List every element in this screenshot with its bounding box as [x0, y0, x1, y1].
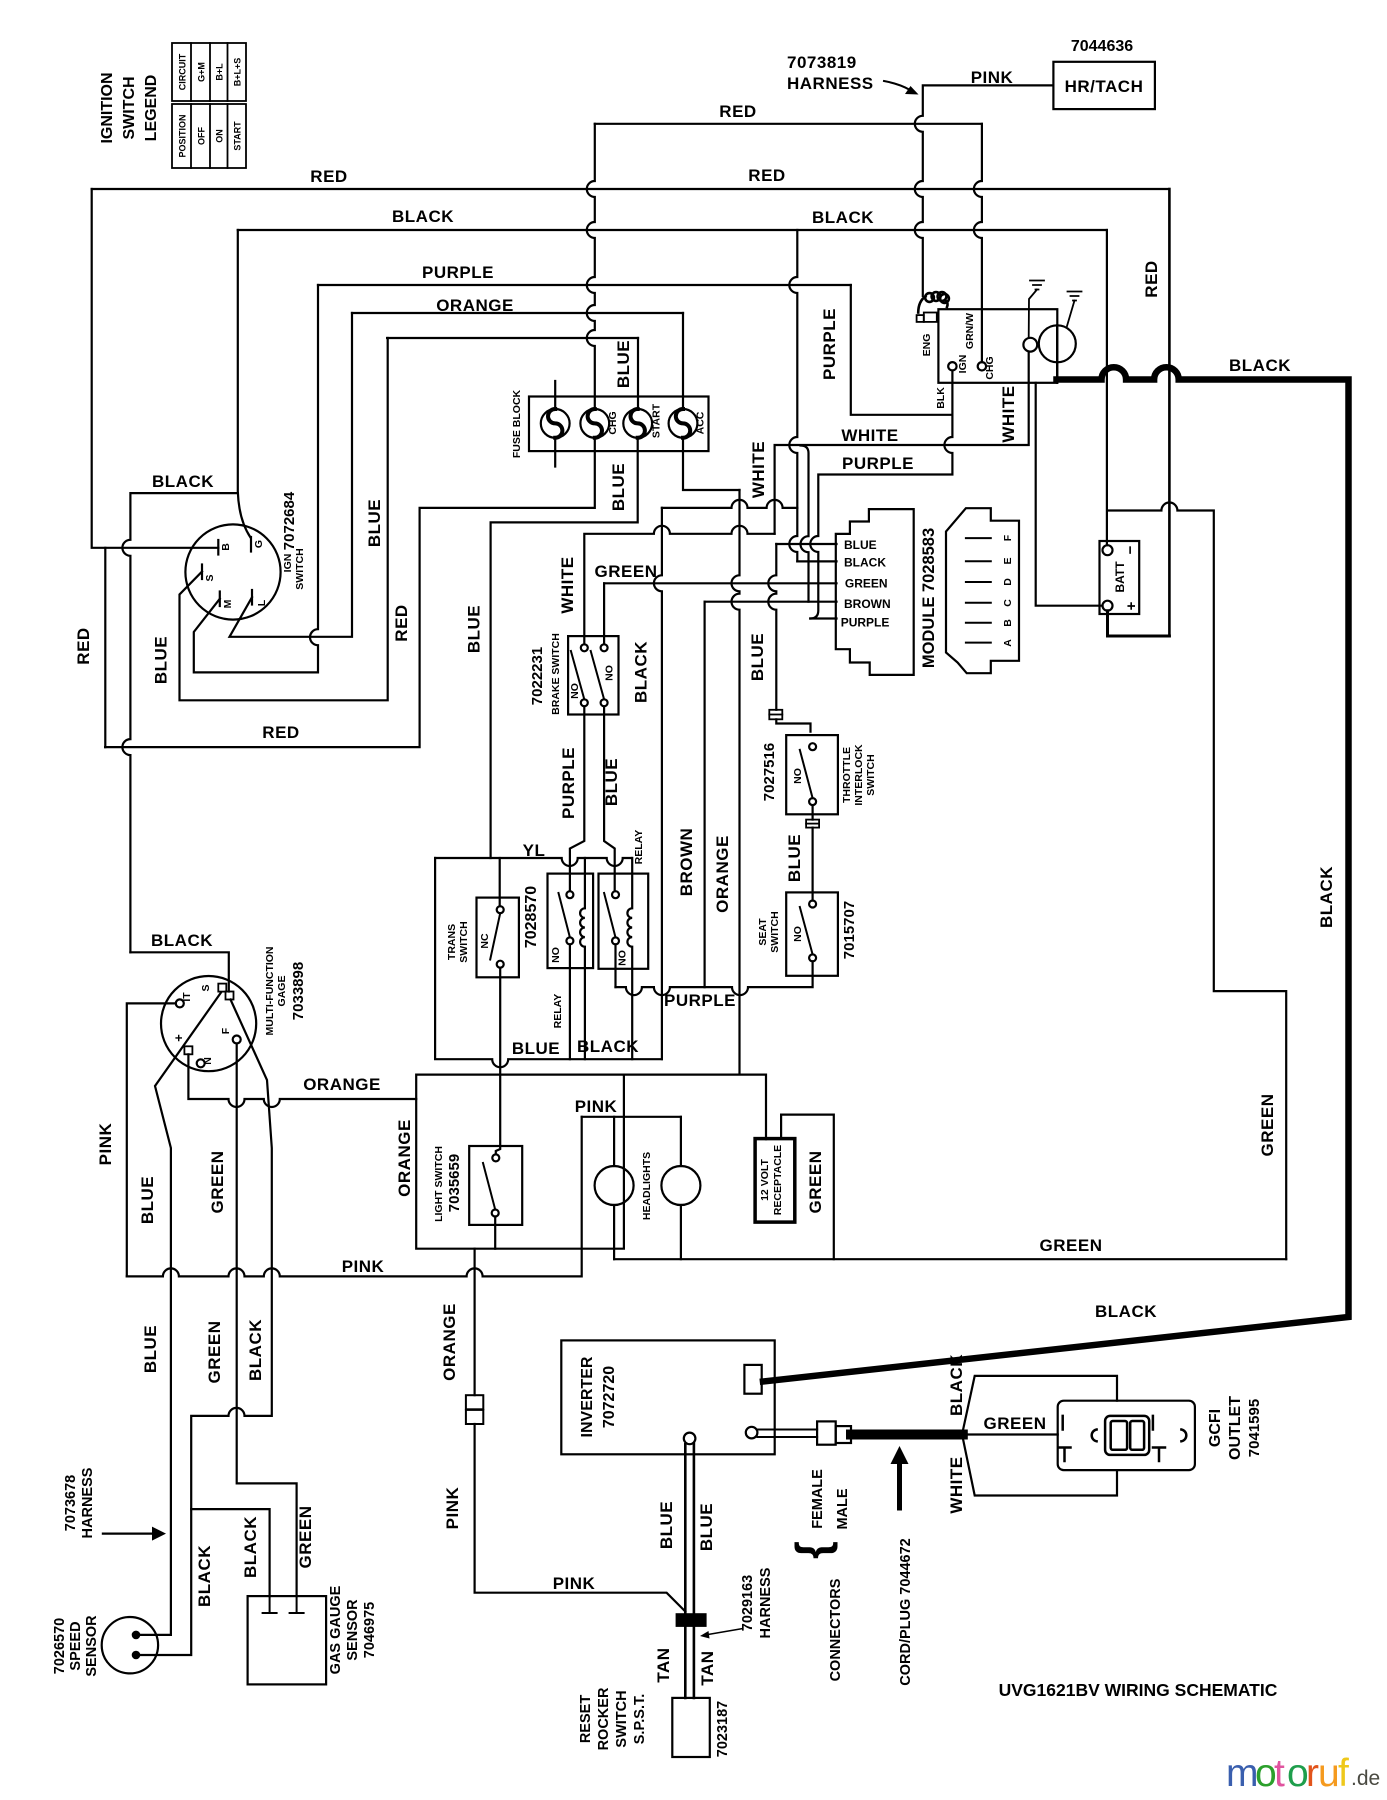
wire BLUE throttle to seat: [811, 805, 813, 820]
wire RED branch down: [104, 548, 106, 747]
svg-text:PURPLE: PURPLE: [422, 263, 494, 282]
svg-text:BLUE: BLUE: [602, 758, 621, 806]
svg-text:PINK: PINK: [443, 1486, 462, 1529]
relay 2 box: [599, 874, 649, 969]
svg-text:INVERTER: INVERTER: [579, 1356, 596, 1437]
wire BLUE from S: [180, 338, 388, 700]
inverter 7072720 box: [561, 1340, 774, 1454]
harness arrow: [103, 1532, 152, 1534]
relay 1 contact bottom: [569, 944, 571, 1059]
wire battery plus loop to red: [1108, 611, 1170, 636]
wire module BLUE row: [776, 543, 836, 545]
svg-text:RED: RED: [310, 167, 347, 186]
engine connector box: [938, 309, 1057, 383]
wire module black up branch: [789, 230, 797, 561]
wire starter to battery plus: [1036, 383, 1103, 606]
wire RED row1 down to CHG: [974, 124, 982, 362]
wire BROWN long vertical: [703, 602, 705, 987]
svg-text:GRN/W: GRN/W: [964, 313, 976, 349]
svg-text:NO: NO: [617, 950, 629, 966]
svg-text:7072720: 7072720: [601, 1366, 618, 1428]
wire PINK headlight row: [582, 1116, 681, 1118]
svg-text:E: E: [1002, 557, 1014, 564]
svg-text:PURPLE: PURPLE: [559, 747, 578, 819]
svg-text:RELAY: RELAY: [552, 994, 564, 1029]
svg-text:7072684: 7072684: [281, 491, 298, 550]
wire PURPLE brake to relay1: [570, 706, 584, 891]
headlight left: [595, 1166, 634, 1205]
svg-text:BLACK: BLACK: [392, 207, 454, 226]
svg-text:+: +: [1123, 601, 1140, 610]
svg-text:IGN: IGN: [282, 554, 294, 573]
svg-text:CHG: CHG: [607, 411, 619, 434]
svg-text:PURPLE: PURPLE: [841, 615, 890, 629]
svg-text:7026570: 7026570: [52, 1618, 68, 1674]
wire module PURPLE row: [810, 617, 836, 619]
wire WHITE fuse4 acc: [683, 438, 740, 490]
svg-text:TRANS: TRANS: [446, 924, 458, 960]
gauge terminal IT: [176, 999, 184, 1007]
relay 1 box: [548, 874, 594, 969]
multi-function gauge 7033898: [161, 976, 256, 1071]
svg-text:NO: NO: [550, 947, 562, 963]
wire RED row2: [92, 188, 1170, 190]
svg-text:7027516: 7027516: [761, 743, 778, 801]
svg-text:FUSE BLOCK: FUSE BLOCK: [511, 389, 523, 458]
wire BLACK to battery neg: [1106, 230, 1108, 545]
svg-text:CONNECTORS: CONNECTORS: [828, 1578, 844, 1681]
svg-text:F: F: [1002, 534, 1014, 541]
wire BLUE pair: [685, 1444, 694, 1615]
svg-text:CORD/PLUG 7044672: CORD/PLUG 7044672: [898, 1538, 914, 1685]
inverter dc terminal: [684, 1433, 696, 1445]
starter motor circle: [1039, 325, 1076, 362]
svg-text:u: u: [1318, 1752, 1340, 1795]
wire BLUE fuse3 to relays: [491, 438, 638, 858]
wire RED down to fuse F2 with hops: [587, 124, 595, 409]
wire ORANGE light loop: [416, 1075, 624, 1249]
svg-text:GREEN: GREEN: [1258, 1094, 1277, 1157]
svg-text:+: +: [171, 1034, 186, 1042]
svg-text:f: f: [1338, 1752, 1349, 1795]
gauge terminal S: [218, 984, 226, 992]
12 volt receptacle: [755, 1139, 795, 1223]
wire 12V to GREEN: [781, 1115, 834, 1260]
gauge terminal F: [233, 1036, 241, 1044]
module pin connector: [946, 508, 1019, 673]
wire trans bottom to light switch: [496, 968, 500, 1155]
wire PINK to hr/tach: [915, 85, 1054, 296]
wire PINK row bottom: [127, 1117, 582, 1277]
terminal L tick: [251, 590, 253, 605]
svg-text:IGNITION: IGNITION: [99, 72, 116, 143]
svg-text:SWITCH: SWITCH: [121, 76, 138, 139]
svg-text:7073819: 7073819: [787, 53, 857, 72]
svg-text:ORANGE: ORANGE: [713, 835, 732, 913]
wire ORANGE to L: [230, 313, 353, 637]
svg-text:BLACK: BLACK: [246, 1319, 265, 1381]
svg-text:SWITCH: SWITCH: [458, 921, 470, 962]
ground engine 2: [1067, 292, 1082, 327]
svg-text:TAN: TAN: [654, 1647, 673, 1682]
throttle interlock switch 7027516: [786, 735, 838, 814]
svg-text:OFF: OFF: [197, 127, 207, 145]
svg-text:7046975: 7046975: [362, 1602, 378, 1658]
svg-text:BLACK: BLACK: [577, 1037, 639, 1056]
svg-text:CIRCUIT: CIRCUIT: [178, 53, 188, 90]
headlight right: [661, 1166, 700, 1205]
svg-text:START: START: [651, 403, 663, 438]
svg-text:C: C: [1002, 599, 1014, 607]
svg-text:GREEN: GREEN: [595, 562, 658, 581]
svg-text:PINK: PINK: [96, 1122, 115, 1165]
wire module BROWN row: [705, 601, 837, 603]
module pins: [966, 538, 991, 643]
wire ORANGE row: [352, 312, 683, 314]
connector bar: [677, 1614, 706, 1626]
wire PINK chain: [475, 1424, 686, 1612]
wire PURPLE row: [318, 284, 851, 286]
svg-text:D: D: [1002, 578, 1014, 586]
svg-text:LEGEND: LEGEND: [143, 75, 160, 142]
svg-text:BLUE: BLUE: [614, 340, 633, 388]
svg-text:NO: NO: [792, 768, 804, 784]
svg-text:SEAT: SEAT: [757, 918, 769, 946]
motoruf watermark: [1226, 1752, 1380, 1795]
svg-text:BLACK: BLACK: [947, 1354, 966, 1416]
svg-text:MULTI-FUNCTION: MULTI-FUNCTION: [264, 946, 276, 1035]
wire PURPLE seat row: [616, 961, 813, 995]
starter solenoid circle: [1023, 338, 1037, 352]
svg-text:NO: NO: [792, 926, 804, 942]
svg-text:RED: RED: [74, 627, 93, 664]
svg-text:START: START: [232, 121, 242, 151]
svg-text:TAN: TAN: [698, 1650, 717, 1685]
svg-text:BLUE: BLUE: [785, 834, 804, 882]
brake switch 7022231: [568, 636, 618, 714]
wire ORANGE from plus: [188, 1054, 416, 1107]
svg-text:B+L+S: B+L+S: [232, 58, 242, 87]
gas gauge sensor box: [248, 1596, 327, 1684]
svg-text:ORANGE: ORANGE: [303, 1075, 381, 1094]
svg-text:BROWN: BROWN: [844, 597, 891, 611]
wire WHITE brake to solenoid: [584, 526, 774, 645]
svg-text:ORANGE: ORANGE: [436, 296, 514, 315]
svg-text:ACC: ACC: [695, 411, 707, 434]
svg-text:WHITE: WHITE: [947, 1456, 966, 1513]
svg-text:G: G: [253, 540, 265, 548]
wire BLACK row: [238, 229, 1107, 231]
wire GREEN from F to gas gauge: [237, 1044, 297, 1597]
svg-text:RECEPTACLE: RECEPTACLE: [772, 1145, 784, 1215]
ground engine 1: [1029, 281, 1044, 338]
wire BLACK left branch: [122, 493, 237, 952]
svg-text:B+L: B+L: [214, 63, 224, 81]
wire BLUE row5: [387, 337, 638, 339]
svg-text:BLUE: BLUE: [465, 605, 484, 653]
spark plug connector: [917, 315, 924, 322]
fuse F1: [541, 409, 570, 438]
svg-text:BLACK: BLACK: [1229, 356, 1291, 375]
wire BLACK to gcfi: [963, 1376, 1117, 1431]
svg-text:BLACK: BLACK: [152, 472, 214, 491]
wire RED right vertical: [1168, 189, 1171, 636]
wire BLACK G curve: [238, 230, 251, 538]
svg-text:F: F: [220, 1027, 232, 1034]
svg-text:BLACK: BLACK: [812, 208, 874, 227]
svg-text:GCFI: GCFI: [1207, 1409, 1224, 1447]
svg-text:RED: RED: [1142, 260, 1161, 297]
wire RED to B: [92, 189, 219, 548]
svg-text:GREEN: GREEN: [1040, 1236, 1103, 1255]
svg-text:PINK: PINK: [342, 1257, 385, 1276]
wire ORANGE row to 12V: [624, 1075, 766, 1140]
terminal M tick: [219, 592, 221, 607]
svg-text:ON: ON: [214, 129, 224, 143]
svg-text:m: m: [1226, 1752, 1259, 1795]
cord arrow: [897, 1464, 902, 1508]
svg-text:BATT: BATT: [1113, 561, 1127, 593]
svg-text:7022231: 7022231: [529, 647, 546, 705]
wire ORANGE down from light loop: [474, 1249, 476, 1396]
light switch 7035659: [469, 1146, 522, 1225]
wire battery neg branch to green: [1108, 503, 1287, 1260]
svg-text:BLACK: BLACK: [1095, 1302, 1157, 1321]
svg-text:L: L: [256, 599, 268, 606]
svg-text:7044636: 7044636: [1071, 38, 1133, 55]
relay 2 contact bottom: [614, 944, 616, 987]
svg-text:GREEN: GREEN: [984, 1414, 1047, 1433]
svg-text:SWITCH: SWITCH: [294, 548, 306, 589]
svg-text:B: B: [220, 543, 232, 551]
svg-text:IGN: IGN: [957, 355, 969, 374]
terminal IGN: [948, 362, 956, 370]
svg-text:RED: RED: [392, 604, 411, 641]
svg-text:LIGHT SWITCH: LIGHT SWITCH: [433, 1146, 445, 1222]
svg-text:NO: NO: [604, 665, 616, 681]
svg-text:GAS GAUGE: GAS GAUGE: [328, 1585, 344, 1674]
terminal S tick: [201, 565, 203, 580]
svg-text:BROWN: BROWN: [677, 828, 696, 897]
svg-text:{: {: [786, 1541, 838, 1559]
battery: [1100, 541, 1140, 614]
svg-text:RED: RED: [262, 723, 299, 742]
svg-text:BRAKE SWITCH: BRAKE SWITCH: [550, 633, 562, 715]
wire BLUE chain from module: [768, 544, 776, 710]
wire BLACK into gauge S: [130, 952, 228, 991]
connector male: [836, 1426, 851, 1443]
svg-text:SENSOR: SENSOR: [84, 1615, 100, 1677]
svg-text:GAGE: GAGE: [276, 976, 288, 1007]
wire GREEN to gcfi: [963, 1433, 1058, 1435]
terminal G tick: [250, 537, 252, 552]
svg-text:NO: NO: [569, 683, 581, 699]
svg-text:GREEN: GREEN: [296, 1506, 315, 1569]
svg-text:OUTLET: OUTLET: [1227, 1396, 1244, 1460]
svg-text:WHITE: WHITE: [558, 556, 577, 613]
svg-text:FEMALE: FEMALE: [810, 1469, 826, 1529]
wire BLACK long vertical: [654, 508, 662, 1059]
relay 2 coil: [627, 858, 632, 1059]
svg-text:HARNESS: HARNESS: [80, 1467, 96, 1538]
wire brown-white stub: [801, 446, 809, 602]
svg-text:BLACK: BLACK: [632, 641, 651, 703]
svg-text:WHITE: WHITE: [841, 426, 898, 445]
svg-text:GREEN: GREEN: [205, 1321, 224, 1384]
wire BLACK rail row: [662, 500, 797, 508]
wire module GREEN row: [604, 582, 836, 584]
svg-text:PURPLE: PURPLE: [820, 308, 839, 380]
svg-text:7041595: 7041595: [1246, 1399, 1263, 1457]
ignition switch legend title: [99, 72, 160, 143]
wire module BLACK row: [797, 560, 836, 562]
wire BLUE left branch to relay contact row: [435, 858, 662, 1067]
svg-text:BLACK: BLACK: [844, 556, 886, 570]
wire BLUE brake to relay2: [604, 706, 615, 891]
svg-text:7028570: 7028570: [523, 886, 540, 948]
connector orange-pink: [466, 1395, 483, 1409]
svg-text:INTERLOCK: INTERLOCK: [853, 744, 865, 806]
gauge terminal plus: [184, 1046, 192, 1054]
svg-text:GREEN: GREEN: [208, 1151, 227, 1214]
svg-text:SWITCH: SWITCH: [769, 911, 781, 952]
svg-text:HR/TACH: HR/TACH: [1065, 77, 1144, 96]
svg-text:UVG1621BV WIRING SCHEMATIC: UVG1621BV WIRING SCHEMATIC: [999, 1680, 1278, 1700]
cord thick: [851, 1430, 963, 1440]
trans switch: [477, 898, 519, 978]
module 7028583 wire connector: [836, 509, 914, 675]
svg-text:BLUE: BLUE: [609, 463, 628, 511]
wire WHITE to gcfi: [963, 1438, 1117, 1496]
svg-text:BLACK: BLACK: [1317, 866, 1336, 928]
relay 1 coil: [580, 858, 585, 1059]
svg-text:POSITION: POSITION: [178, 114, 188, 157]
svg-text:B: B: [1002, 619, 1014, 627]
svg-text:G+M: G+M: [197, 62, 207, 82]
svg-text:S: S: [204, 574, 216, 581]
speed sensor 7026570: [102, 1617, 158, 1673]
svg-text:PURPLE: PURPLE: [842, 454, 914, 473]
ignition coil symbol: [918, 292, 949, 312]
ignition switch legend table: [172, 43, 246, 168]
svg-text:ORANGE: ORANGE: [440, 1303, 459, 1381]
wire PURPLE from IGN to module: [810, 371, 952, 619]
wire ORANGE long vertical: [732, 490, 740, 1073]
terminal CHG: [978, 362, 986, 370]
wire RED fuse2 return path: [105, 438, 595, 747]
svg-text:RESET: RESET: [578, 1695, 594, 1743]
svg-text:WHITE: WHITE: [749, 441, 768, 498]
svg-text:7023187: 7023187: [715, 1701, 731, 1757]
svg-text:.de: .de: [1351, 1767, 1380, 1790]
svg-text:12 VOLT: 12 VOLT: [759, 1159, 771, 1201]
svg-text:S.P.S.T.: S.P.S.T.: [632, 1694, 648, 1745]
terminal B tick: [217, 540, 219, 555]
svg-text:BLUE: BLUE: [512, 1039, 560, 1058]
connector female: [817, 1421, 836, 1444]
wire PINK from IT: [127, 1003, 176, 1276]
fuse block: [529, 397, 709, 452]
svg-text:7035659: 7035659: [446, 1154, 463, 1212]
svg-text:A: A: [1002, 639, 1014, 647]
svg-text:PINK: PINK: [553, 1574, 596, 1593]
svg-text:7033898: 7033898: [290, 962, 307, 1020]
connector blue chain: [769, 710, 782, 720]
svg-text:PINK: PINK: [971, 68, 1014, 87]
wire BLACK diagonal from S: [140, 1000, 272, 1656]
fuse F3 START: [623, 409, 652, 438]
svg-text:BLK: BLK: [935, 387, 947, 409]
svg-text:BLUE: BLUE: [844, 538, 877, 552]
wire PURPLE kill branch: [851, 285, 953, 415]
gauge terminal N: [197, 1059, 205, 1067]
seat switch 7015707: [786, 892, 838, 975]
reset rocker switch box: [672, 1698, 710, 1757]
svg-text:BLUE: BLUE: [748, 633, 767, 681]
svg-text:GREEN: GREEN: [806, 1151, 825, 1214]
svg-text:PINK: PINK: [575, 1097, 618, 1116]
svg-text:M: M: [222, 599, 234, 608]
gcfi outlet 7041595: [1058, 1401, 1195, 1470]
wire GREEN bottom row: [614, 1258, 1286, 1260]
fuse F4 ACC: [669, 409, 698, 438]
svg-text:THROTTLE: THROTTLE: [841, 747, 853, 803]
svg-text:RED: RED: [719, 102, 756, 121]
svg-text:BLUE: BLUE: [141, 1325, 160, 1373]
svg-text:BLUE: BLUE: [138, 1176, 157, 1224]
svg-text:HEADLIGHTS: HEADLIGHTS: [641, 1152, 653, 1220]
harness pointer: [708, 1629, 742, 1635]
svg-text:−: −: [1122, 545, 1139, 554]
svg-text:N: N: [202, 1057, 214, 1065]
svg-text:MODULE 7028583: MODULE 7028583: [920, 528, 938, 668]
svg-text:WHITE: WHITE: [999, 385, 1018, 442]
inverter cord terminal: [746, 1427, 758, 1439]
svg-text:BLUE: BLUE: [152, 636, 171, 684]
wire trans top to YL: [499, 858, 501, 906]
wire GREEN brake to module: [603, 583, 605, 644]
svg-text:t: t: [1274, 1752, 1285, 1795]
svg-text:SWITCH: SWITCH: [614, 1690, 630, 1747]
svg-text:SPEED: SPEED: [68, 1621, 84, 1670]
inverter outlet: [744, 1365, 761, 1394]
inverter cord pair: [757, 1430, 817, 1438]
svg-text:IT: IT: [181, 992, 193, 1002]
svg-text:SENSOR: SENSOR: [345, 1599, 361, 1661]
svg-text:S: S: [200, 984, 212, 991]
svg-text:BLUE: BLUE: [697, 1503, 716, 1551]
svg-text:ROCKER: ROCKER: [596, 1687, 612, 1750]
svg-text:BLUE: BLUE: [657, 1501, 676, 1549]
wire YL relay feed row: [435, 858, 632, 866]
svg-text:HARNESS: HARNESS: [758, 1567, 774, 1638]
svg-text:ENG: ENG: [921, 334, 933, 357]
wire RED row1 (CHG to fuse): [595, 123, 982, 125]
wire TAN pair: [685, 1626, 694, 1698]
hour meter / tach box: [1053, 62, 1155, 109]
wire WHITE solenoid: [775, 352, 1029, 534]
ignition switch 7072684: [185, 524, 280, 619]
svg-text:PURPLE: PURPLE: [664, 991, 736, 1010]
fuse F2 CHG: [580, 409, 609, 438]
svg-text:7073678: 7073678: [63, 1475, 79, 1531]
svg-text:GREEN: GREEN: [845, 576, 888, 590]
svg-text:BLACK: BLACK: [241, 1516, 260, 1578]
svg-text:7029163: 7029163: [740, 1575, 756, 1631]
svg-text:BLACK: BLACK: [151, 931, 213, 950]
wire BLUE diagonal from S: [140, 993, 221, 1635]
svg-text:BLUE: BLUE: [365, 499, 384, 547]
